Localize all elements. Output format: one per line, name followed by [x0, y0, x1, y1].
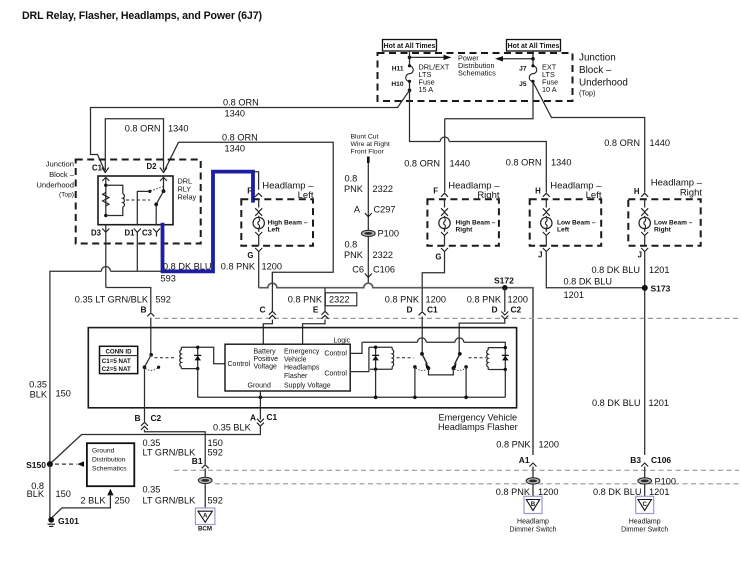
svg-text:G: G	[247, 251, 253, 260]
wire to dimmer switch C	[644, 484, 646, 496]
terminal H chevron (low beam right)	[641, 193, 648, 197]
svg-text:1201: 1201	[649, 487, 669, 497]
relay coil K1 winding	[180, 347, 182, 350]
svg-text:0.8 PNK: 0.8 PNK	[496, 487, 531, 497]
svg-text:LT GRN/BLK: LT GRN/BLK	[143, 495, 197, 505]
terminal D1 exit chevron	[134, 229, 141, 233]
flasher output switch 2 blade	[455, 354, 460, 364]
svg-text:2322: 2322	[329, 295, 349, 305]
svg-text:0.8 DK BLU: 0.8 DK BLU	[591, 265, 640, 275]
output switch 2 open contact node	[464, 365, 468, 369]
svg-text:Right: Right	[477, 190, 500, 201]
flasher internal ground rail	[198, 396, 506, 398]
splice S173	[642, 285, 648, 291]
relay coil K1 (left pair) rails	[181, 347, 225, 364]
svg-text:2 BLK: 2 BLK	[80, 495, 106, 505]
svg-text:Underhood: Underhood	[579, 78, 628, 89]
svg-text:C: C	[259, 305, 265, 315]
fuse F1 element	[406, 66, 414, 81]
wire open contact 2 ground drop	[465, 367, 467, 397]
node H10 junction	[408, 89, 412, 93]
svg-text:Hot at All Times: Hot at All Times	[508, 43, 560, 50]
splice S172	[502, 285, 507, 290]
headlamp dimmer switch C triangle	[636, 496, 654, 513]
wire diode D1 ground drop	[197, 369, 199, 398]
svg-text:B3: B3	[630, 455, 641, 465]
relay switch alternate position dotted	[151, 187, 164, 191]
svg-text:Schematics: Schematics	[92, 465, 127, 472]
svg-text:0.8: 0.8	[345, 240, 358, 250]
arrow into ground distribution box	[107, 489, 113, 496]
svg-text:1200: 1200	[538, 487, 558, 497]
wire 1340 from H10 to C1 (top long run)	[91, 90, 410, 172]
wire D C2 into flasher (jog)	[459, 319, 505, 354]
svg-text:C2: C2	[511, 305, 522, 315]
wire control 1 to internal rail	[350, 342, 362, 353]
svg-text:0.8 ORN: 0.8 ORN	[404, 159, 440, 169]
relay coil (right branch)	[106, 185, 123, 194]
node on fuse1 top	[408, 56, 412, 60]
svg-text:C2: C2	[151, 413, 162, 423]
svg-text:Distribution: Distribution	[92, 456, 126, 463]
svg-text:0.8 ORN: 0.8 ORN	[125, 124, 161, 134]
relay coil K2 rails (middle pair)	[369, 346, 392, 348]
svg-text:592: 592	[156, 295, 171, 305]
svg-text:0.8 PNK: 0.8 PNK	[496, 440, 531, 450]
wire B3 to connector	[644, 467, 646, 478]
svg-text:Control: Control	[228, 361, 251, 368]
output switch 1 dotted arc	[416, 368, 427, 370]
svg-text:Positive: Positive	[254, 356, 279, 363]
svg-text:B: B	[140, 305, 146, 315]
wire 1340 from H10 down to low beam left H	[410, 90, 441, 141]
output switch 2 dotted arc	[455, 368, 466, 370]
svg-text:H10: H10	[391, 81, 403, 88]
wire E drop from bus	[324, 288, 326, 311]
output switch 1 closed contact node	[427, 367, 431, 371]
wire jog into headlamp left F	[254, 172, 259, 190]
svg-text:Headlamp: Headlamp	[517, 519, 549, 526]
wire J low-beam-right down through S173 to B3	[644, 252, 646, 456]
svg-text:BLK: BLK	[30, 390, 48, 400]
svg-text:1440: 1440	[650, 138, 670, 148]
svg-text:2322: 2322	[373, 250, 393, 260]
Headlamp Right box (low beam)	[628, 199, 700, 245]
svg-text:1340: 1340	[225, 144, 245, 154]
low beam right lower glyphs	[644, 229, 646, 232]
wire D1 down	[136, 232, 138, 271]
wire hop over 1440 vertical	[440, 137, 449, 142]
low beam right bulb	[639, 217, 650, 228]
connector P100 (A1 inline)	[526, 478, 540, 484]
wire open contact 1 ground drop	[414, 367, 416, 397]
svg-text:2322: 2322	[373, 184, 393, 194]
svg-text:Left: Left	[557, 227, 570, 234]
svg-text:Control: Control	[324, 370, 347, 377]
wire 250 from G101 to ground distribution	[52, 495, 110, 517]
wire S150 riser to D1/C3 line (left horizontal)	[50, 271, 101, 464]
relay switch contact C3 node	[154, 203, 158, 207]
svg-text:S173: S173	[651, 284, 671, 294]
svg-text:1340: 1340	[225, 109, 245, 119]
svg-text:J: J	[638, 251, 642, 260]
wire D C1 drop from bus	[421, 288, 423, 311]
flasher switch linkage dashed	[155, 357, 177, 359]
wire D3 down	[105, 225, 107, 288]
terminal J chevron (low beam left)	[543, 248, 550, 252]
wire B into flasher	[150, 318, 152, 355]
svg-text:0.35: 0.35	[29, 380, 47, 390]
low beam left bulb terminal glyphs	[545, 199, 547, 207]
svg-text:PNK: PNK	[344, 184, 364, 194]
svg-text:15 A: 15 A	[419, 85, 434, 94]
svg-text:CONN ID: CONN ID	[105, 348, 132, 355]
svg-text:Relay: Relay	[178, 193, 197, 202]
relay coil K3 rails (right pair)	[488, 347, 505, 349]
svg-text:1201: 1201	[649, 265, 669, 275]
flasher input switch pivot node	[149, 353, 153, 357]
svg-text:D: D	[406, 305, 412, 315]
diode D1 (left pair)	[197, 347, 199, 368]
Headlamp Right box (high beam)	[427, 199, 499, 245]
terminal G chevron (headlamp left)	[255, 248, 262, 252]
svg-text:Block –: Block –	[579, 65, 612, 76]
blunt cut tick	[367, 157, 370, 164]
svg-text:H: H	[535, 187, 541, 196]
wire ground from logic module	[259, 391, 261, 420]
svg-text:J: J	[538, 251, 542, 260]
svg-text:(Top): (Top)	[59, 192, 74, 199]
flasher output switch 2 pole node	[458, 352, 462, 356]
svg-text:250: 250	[115, 495, 130, 505]
relay coil K2 winding	[391, 347, 393, 349]
flasher switch alternate position dotted arc	[146, 368, 159, 371]
svg-text:Right: Right	[654, 227, 672, 234]
wire S150 to G101	[49, 464, 51, 519]
svg-text:Voltage: Voltage	[254, 363, 277, 370]
svg-text:Left: Left	[586, 190, 602, 201]
svg-text:Supply Voltage: Supply Voltage	[284, 382, 331, 389]
flasher switch contact node	[143, 365, 147, 369]
svg-text:0.8 PNK: 0.8 PNK	[467, 295, 502, 305]
svg-text:PNK: PNK	[344, 250, 364, 260]
svg-text:E: E	[313, 305, 319, 315]
svg-text:C1: C1	[267, 412, 278, 422]
DRL relay box	[98, 176, 173, 225]
svg-text:BCM: BCM	[198, 526, 212, 533]
flasher module box	[88, 328, 516, 408]
relay resistor	[103, 193, 109, 207]
wire fuse1 bottom stub	[409, 81, 411, 90]
svg-text:0.8: 0.8	[345, 174, 358, 184]
svg-text:High Beam –: High Beam –	[268, 220, 308, 227]
wire 1440 from J5 diagonal to low beam right H	[533, 82, 645, 193]
svg-text:Schematics: Schematics	[458, 69, 496, 78]
svg-text:A: A	[354, 205, 361, 215]
connector P100 (B3 inline)	[638, 478, 652, 484]
gray dashed divider (row 2 bottom)	[215, 483, 739, 485]
ground distribution schematics box	[87, 443, 134, 486]
svg-text:592: 592	[208, 495, 223, 505]
junction block underhood dashed box (left)	[76, 160, 201, 244]
svg-text:Headlamp: Headlamp	[629, 519, 661, 526]
wire to dimmer switch B	[532, 484, 534, 496]
svg-text:(Top): (Top)	[579, 89, 595, 98]
CONN ID table	[100, 346, 138, 373]
svg-text:Hot at All Times: Hot at All Times	[384, 43, 436, 50]
internal rail with hops	[362, 341, 417, 343]
wire diode D2 ground drop	[375, 369, 377, 397]
svg-text:1200: 1200	[508, 295, 528, 305]
terminal G chevron (headlamp right)	[441, 248, 448, 252]
svg-text:C297: C297	[374, 205, 396, 215]
arrow to power distribution schematics (right)	[410, 56, 444, 58]
diode D3 (right pair)	[504, 348, 506, 370]
svg-text:Flasher: Flasher	[284, 373, 308, 380]
svg-text:0.8 DK BLU: 0.8 DK BLU	[564, 277, 613, 287]
Hot at All Times box 1	[383, 40, 437, 52]
svg-text:F: F	[247, 187, 252, 196]
svg-text:0.35 BLK: 0.35 BLK	[213, 423, 252, 433]
arrow from fuse2 to power distribution (left pointing)	[503, 58, 533, 60]
svg-text:1340: 1340	[551, 158, 571, 168]
relay switch common wire	[163, 177, 165, 191]
svg-text:1200: 1200	[539, 440, 559, 450]
ground G101	[48, 517, 54, 523]
low beam right bulb terminal glyphs	[644, 199, 646, 207]
wire J low-beam-left to S173	[546, 252, 645, 288]
wire C into flasher	[263, 320, 272, 345]
gray dashed divider (row 1 bottom)	[174, 469, 739, 471]
svg-text:0.8 DK BLU: 0.8 DK BLU	[593, 487, 642, 497]
svg-text:D2: D2	[147, 162, 158, 171]
svg-text:J5: J5	[519, 81, 527, 88]
svg-text:Wire at Right: Wire at Right	[351, 141, 390, 148]
relay D1 contact wire	[137, 191, 150, 224]
svg-text:A: A	[203, 512, 208, 519]
svg-text:C106: C106	[651, 455, 671, 465]
svg-text:1200: 1200	[426, 295, 446, 305]
svg-text:Left: Left	[298, 190, 314, 201]
wire to BCM	[204, 484, 206, 508]
wire 2322 riser	[367, 163, 369, 283]
svg-text:G101: G101	[58, 516, 79, 526]
relay C1 entry chevron	[102, 177, 109, 181]
svg-text:Junction: Junction	[579, 53, 616, 64]
svg-text:0.35 LT GRN/BLK: 0.35 LT GRN/BLK	[75, 295, 149, 305]
svg-text:1440: 1440	[450, 159, 470, 169]
svg-text:0.8 ORN: 0.8 ORN	[506, 158, 542, 168]
terminal D2 chevron	[160, 168, 167, 173]
wire control 2 to relay coil K2	[350, 347, 369, 371]
svg-text:Control: Control	[324, 350, 347, 357]
dashed reference arrow to ground distribution	[55, 463, 77, 465]
fuse F1 DRL/EXT LTS fuse wire top	[409, 51, 411, 65]
svg-text:Dimmer Switch: Dimmer Switch	[621, 527, 668, 534]
wire D C1 into flasher	[421, 317, 423, 354]
svg-text:C6: C6	[352, 265, 364, 275]
svg-text:S150: S150	[26, 460, 46, 470]
svg-text:Ground: Ground	[248, 382, 271, 389]
svg-text:1201: 1201	[564, 290, 584, 300]
svg-text:1200: 1200	[262, 262, 282, 272]
wire hop over D3 vertical	[101, 267, 110, 272]
relay switch pivot node	[162, 189, 166, 193]
svg-text:0.35: 0.35	[143, 485, 161, 495]
svg-text:Vehicle: Vehicle	[284, 356, 307, 363]
terminal F chevron (headlamp left)	[255, 193, 262, 197]
svg-text:150: 150	[56, 389, 71, 399]
flasher output switch 1 pole node	[420, 352, 424, 356]
connector P100 (inline)	[361, 230, 375, 236]
svg-text:D3: D3	[91, 229, 102, 238]
svg-text:Blunt Cut: Blunt Cut	[351, 134, 379, 141]
wire G high-beam-right to bus	[422, 252, 444, 288]
svg-text:LT GRN/BLK: LT GRN/BLK	[143, 447, 197, 457]
svg-text:Right: Right	[680, 188, 703, 199]
terminal J chevron (low beam right)	[641, 248, 648, 252]
svg-text:P100: P100	[378, 229, 399, 239]
low beam left bulb	[541, 217, 552, 228]
terminal D3 exit chevron	[102, 229, 109, 233]
wire U link between output switches	[429, 368, 454, 375]
relay D2 entry chevron	[160, 177, 167, 181]
wire 1340 from D2 to flasher C (upper horizontal)	[164, 142, 334, 283]
relay linkage dashed	[126, 199, 150, 201]
svg-text:B1: B1	[192, 456, 203, 466]
svg-text:D: D	[491, 305, 497, 315]
svg-text:Low Beam –: Low Beam –	[557, 220, 596, 227]
relay coil left branch wire	[105, 177, 107, 215]
flasher input switch blade	[145, 355, 152, 367]
svg-text:0.8 PNK: 0.8 PNK	[385, 295, 420, 305]
headlamp dimmer switch B triangle	[524, 496, 542, 513]
high beam left lower glyphs	[258, 229, 260, 232]
splice bus (main horizontal)	[259, 283, 533, 455]
wire flasher C terminal drop (battery positive)	[271, 272, 273, 311]
svg-text:Dimmer Switch: Dimmer Switch	[509, 527, 556, 534]
svg-text:BLK: BLK	[27, 489, 45, 499]
wire 592 to B1	[145, 430, 206, 465]
terminal F chevron (headlamp right)	[441, 193, 448, 197]
terminal H chevron (low beam left)	[543, 193, 550, 197]
wire D C2 drop from S172	[504, 288, 506, 312]
svg-text:Underhood: Underhood	[36, 181, 74, 190]
wire G high-beam-left down to splice bus	[258, 252, 260, 288]
svg-text:Headlamps Flasher: Headlamps Flasher	[438, 422, 518, 432]
svg-text:H: H	[634, 187, 640, 196]
svg-text:0.8 DK BLU: 0.8 DK BLU	[592, 398, 641, 408]
relay coil K3 winding	[487, 348, 489, 350]
terminal A C1 chevrons	[257, 419, 264, 427]
diode D2 (middle pair)	[375, 347, 377, 369]
linkage dashed switch to K3	[469, 357, 487, 359]
high beam left bulb terminal glyphs	[258, 199, 260, 207]
svg-text:Logic: Logic	[334, 337, 351, 344]
terminal C1 chevron	[102, 168, 109, 173]
svg-text:C1: C1	[427, 305, 438, 315]
relay switch contact D1 node	[148, 190, 151, 193]
wire B C2 below flasher	[144, 408, 146, 422]
svg-text:Emergency: Emergency	[284, 348, 320, 355]
linkage dashed K2 to switch	[397, 357, 414, 359]
flasher switch alternate contact node	[157, 366, 160, 369]
svg-text:S172: S172	[494, 276, 514, 286]
svg-text:Headlamps: Headlamps	[284, 365, 320, 372]
svg-text:C: C	[642, 501, 647, 508]
svg-text:150: 150	[56, 489, 71, 499]
high beam right lower glyphs	[444, 229, 446, 232]
svg-text:10 A: 10 A	[542, 85, 557, 94]
gray dashed connector divider (mid)	[155, 317, 739, 319]
svg-text:C3: C3	[142, 229, 153, 238]
svg-text:B: B	[134, 413, 140, 423]
svg-text:592: 592	[208, 447, 223, 457]
svg-text:Right: Right	[456, 227, 474, 234]
high beam right bulb terminal glyphs	[444, 199, 446, 207]
terminal B C2 chevrons	[141, 422, 148, 430]
svg-text:Block –: Block –	[49, 170, 75, 179]
wire C3 stub	[156, 232, 158, 236]
svg-text:0.8 PNK: 0.8 PNK	[221, 262, 256, 272]
svg-text:0.8 DK BLU: 0.8 DK BLU	[163, 262, 212, 272]
fuse F2 EXT LTS fuse wire top	[532, 51, 534, 65]
svg-text:High Beam –: High Beam –	[456, 220, 496, 227]
relay C3 wire	[155, 204, 157, 224]
svg-text:Front Floor: Front Floor	[351, 149, 385, 156]
wire A1 to connector	[532, 467, 534, 478]
svg-text:1340: 1340	[168, 124, 188, 134]
junction block underhood dashed box (top right)	[378, 53, 573, 101]
svg-text:B: B	[531, 501, 536, 508]
svg-text:C2=5 NAT: C2=5 NAT	[102, 366, 131, 373]
svg-text:A: A	[250, 413, 256, 423]
wire D3 to flasher B	[106, 288, 151, 313]
high beam right bulb	[439, 217, 450, 228]
Hot at All Times box 2	[507, 40, 561, 52]
terminal C3 exit chevron	[153, 229, 160, 233]
wire E into flasher	[303, 320, 325, 345]
Headlamp Left box (low beam)	[530, 199, 602, 245]
connector inline (B1)	[198, 477, 212, 483]
svg-text:Left: Left	[268, 227, 281, 234]
Headlamp Left box (high beam)	[241, 199, 313, 245]
svg-text:Low Beam –: Low Beam –	[654, 220, 693, 227]
relay switch blade	[156, 191, 163, 204]
wire 1440 from J5 to high beam right F	[445, 83, 533, 119]
svg-text:0.8 ORN: 0.8 ORN	[222, 133, 258, 143]
flasher output switch 1 blade	[422, 354, 427, 364]
fuse F2 element	[529, 66, 537, 81]
svg-text:F: F	[433, 187, 438, 196]
svg-text:H11: H11	[392, 66, 404, 73]
svg-text:G: G	[435, 253, 441, 262]
svg-text:C1=5 NAT: C1=5 NAT	[102, 358, 131, 365]
svg-text:0.8 ORN: 0.8 ORN	[223, 98, 259, 108]
svg-text:Ground: Ground	[92, 447, 115, 454]
wire C1-D2 tie rail	[105, 119, 163, 170]
svg-text:1201: 1201	[649, 398, 669, 408]
flasher logic module box	[225, 344, 350, 391]
wire switch contact down to B C2	[144, 367, 146, 408]
svg-text:C106: C106	[373, 265, 395, 275]
svg-text:C1: C1	[92, 164, 103, 173]
svg-text:D1: D1	[125, 229, 136, 238]
BCM off-page triangle	[195, 508, 215, 525]
svg-text:593: 593	[161, 274, 176, 284]
output switch 1 open contact node	[413, 365, 417, 369]
svg-text:Junction: Junction	[46, 160, 74, 169]
